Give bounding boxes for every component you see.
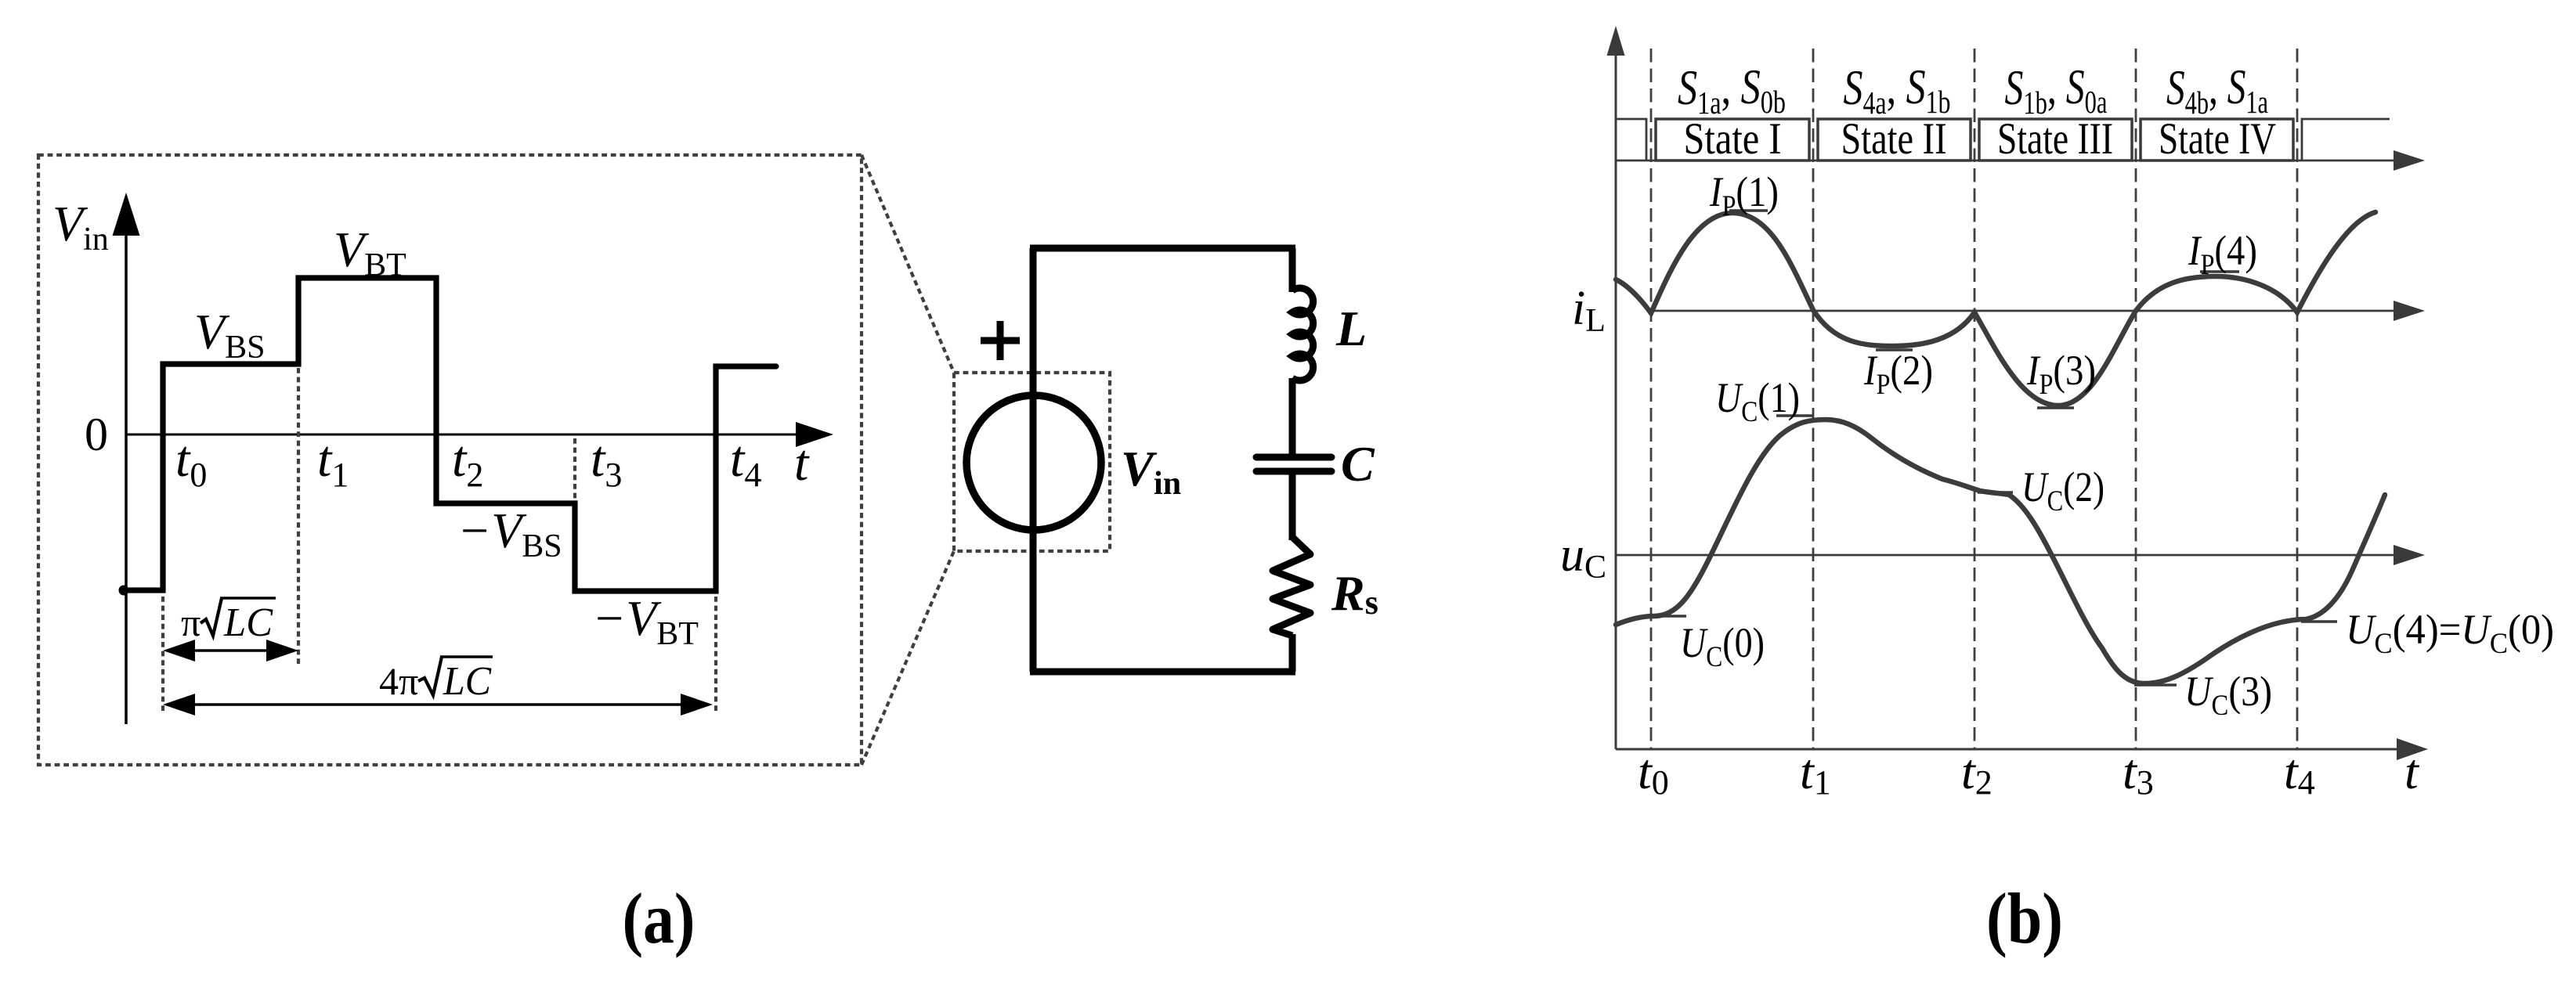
tick IP2: [1876, 348, 1913, 351]
inductor L: [1292, 288, 1313, 380]
dashed line t0 (b): [1650, 49, 1653, 749]
svg-text:(a): (a): [623, 878, 695, 958]
dashed line t3: [573, 438, 576, 587]
wire below Rs: [1289, 634, 1296, 672]
svg-text:t: t: [794, 434, 810, 492]
tick IP4: [2200, 270, 2239, 273]
dashed line t4 (b): [2296, 49, 2299, 749]
time axis arrowhead: [2397, 738, 2428, 760]
circuit: top wire: [1030, 245, 1295, 252]
circuit: left wire: [1030, 248, 1037, 672]
resistor Rs zigzag: [1273, 537, 1310, 636]
zoom lens top dashed line: [862, 155, 954, 373]
svg-text:IP(2): IP(2): [1863, 347, 1933, 401]
voltage source Vin circle: [966, 395, 1101, 530]
capacitor C bottom plate: [1256, 468, 1331, 475]
state row axis arrowhead: [2394, 150, 2425, 171]
svg-text:State I: State I: [1684, 114, 1782, 164]
dashed box around source Vin: [954, 373, 1110, 551]
vertical axis (b): [1615, 47, 1617, 749]
svg-text:UC(0): UC(0): [1680, 619, 1765, 673]
uC voltage curve: [1616, 420, 2385, 683]
dashed line t1 (b): [1812, 49, 1815, 749]
dimension arrow pi sqrt LC: [168, 649, 294, 652]
svg-text:State II: State II: [1841, 114, 1947, 164]
circuit: right wire upper segment: [1289, 248, 1296, 292]
junction dot at waveform start: [119, 586, 129, 596]
svg-text:L: L: [1335, 301, 1367, 356]
state row baseline: [1616, 160, 2397, 162]
svg-text:LC: LC: [223, 600, 273, 645]
svg-text:IP(3): IP(3): [2026, 347, 2096, 401]
svg-text:LC: LC: [443, 659, 492, 704]
tick IP3: [2037, 406, 2074, 409]
tick UC0: [1655, 615, 1686, 618]
wire between L and C: [1289, 378, 1296, 455]
svg-text:UC(1): UC(1): [1715, 374, 1800, 428]
pulse line right: [2302, 119, 2390, 160]
plus sign: [981, 337, 1020, 344]
dashed line t3 (b): [2135, 49, 2137, 749]
tick UC3: [2134, 683, 2177, 687]
vertical axis arrowhead (b): [1607, 26, 1625, 56]
zero axis (t axis of waveform): [126, 434, 800, 436]
Vin vertical axis: [125, 229, 128, 724]
svg-text:C: C: [1341, 436, 1375, 492]
tick UC2: [1978, 491, 2013, 494]
tick UC4: [2301, 620, 2337, 623]
iL axis arrowhead: [2394, 301, 2425, 321]
svg-text:UC(2): UC(2): [2021, 463, 2105, 517]
state box III: [1979, 119, 2132, 160]
uC axis arrowhead: [2394, 545, 2425, 565]
pulse line left: [1616, 119, 1646, 160]
time axis (b): [1616, 748, 2398, 751]
dashed line t2 (b): [1974, 49, 1976, 749]
dimension arrow 4 pi sqrt LC: [168, 703, 708, 706]
tick UC1: [1776, 414, 1814, 417]
iL current curve: [1616, 212, 2375, 406]
svg-text:t: t: [2404, 744, 2420, 799]
zoom lens bottom dashed line: [862, 551, 954, 765]
svg-text:State IV: State IV: [2159, 114, 2276, 164]
capacitor C top plate: [1256, 454, 1331, 461]
svg-text:UC(3): UC(3): [2184, 668, 2272, 722]
dashed line t1: [297, 368, 300, 664]
svg-text:IP(1): IP(1): [1709, 168, 1779, 222]
dashed line t4 below waveform: [714, 597, 717, 711]
state box I: [1656, 119, 1809, 160]
tick IP1: [1729, 209, 1768, 212]
wire between C and Rs: [1289, 474, 1296, 540]
svg-text:π: π: [181, 600, 201, 644]
iL axis: [1651, 310, 2397, 312]
svg-text:State III: State III: [1997, 114, 2113, 164]
dashed zoom frame around waveform: [38, 155, 862, 765]
svg-text:(b): (b): [1986, 878, 2063, 958]
svg-text:0: 0: [85, 409, 108, 460]
dashed line t0 below waveform: [161, 597, 164, 711]
svg-text:IP(4): IP(4): [2188, 227, 2257, 281]
waveform Vin square wave: [123, 278, 776, 591]
state box II: [1818, 119, 1971, 160]
uC axis: [1616, 554, 2397, 557]
circuit: bottom wire: [1030, 669, 1295, 676]
t axis arrowhead: [796, 422, 833, 447]
state box IV: [2141, 119, 2293, 160]
svg-text:4π: 4π: [379, 659, 418, 703]
Vin axis arrowhead: [113, 193, 140, 236]
